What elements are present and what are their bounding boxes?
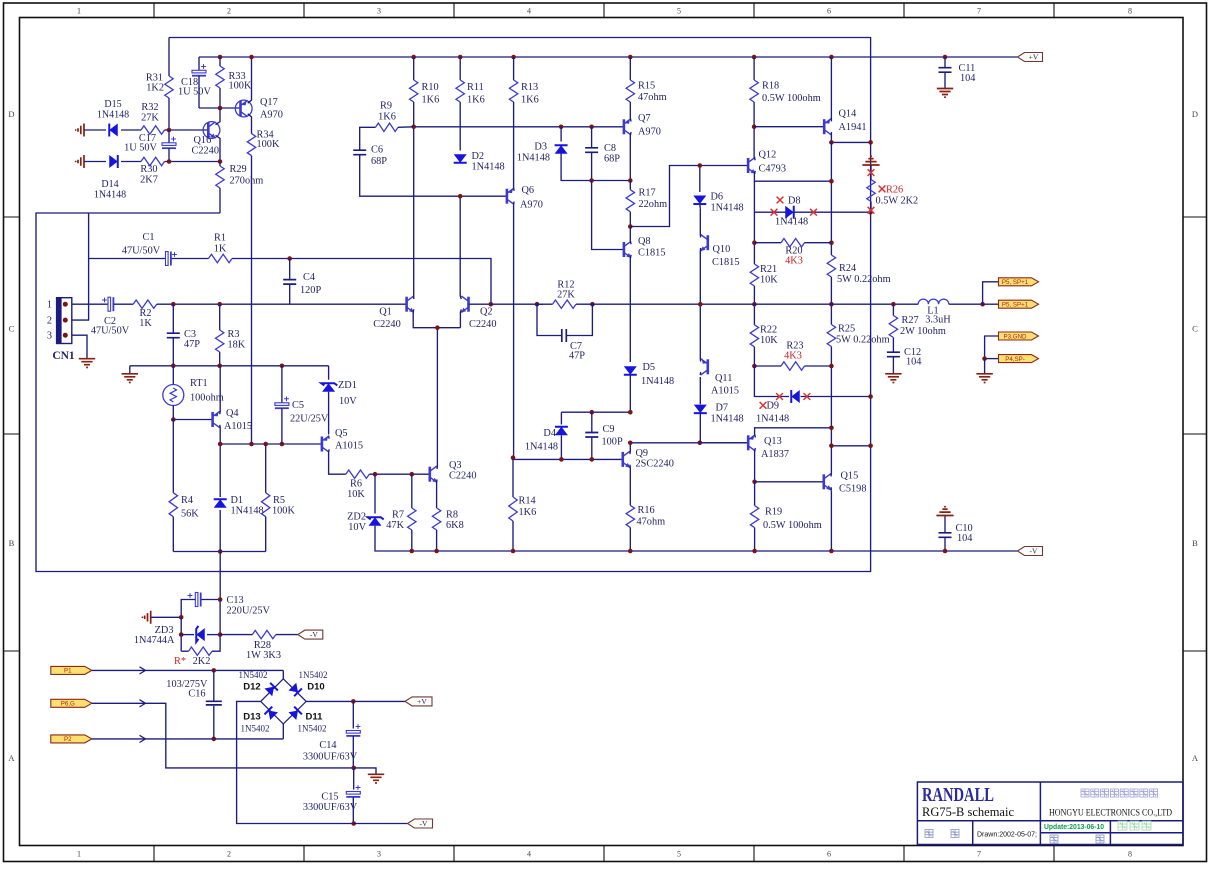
- svg-text:Q17: Q17: [260, 97, 278, 108]
- capacitor C7 47P: [537, 304, 562, 335]
- wire Q14 collector to output loop: [831, 141, 870, 143]
- svg-text:C: C: [9, 324, 15, 334]
- svg-text:D: D: [8, 109, 14, 119]
- transistor Q10 C1815: [700, 235, 708, 252]
- svg-text:22ohm: 22ohm: [639, 199, 668, 210]
- junction C14 top: [351, 699, 356, 704]
- resistor R6 10K: [346, 470, 370, 478]
- svg-text:2K7: 2K7: [140, 175, 158, 186]
- resistor R17 22ohm: [629, 181, 631, 190]
- svg-text:1N4148: 1N4148: [94, 190, 126, 201]
- svg-text:D11: D11: [306, 712, 324, 723]
- svg-text:C6: C6: [371, 145, 383, 156]
- resistor R29 270ohm: [219, 162, 221, 167]
- svg-text:-V: -V: [1030, 547, 1038, 556]
- svg-text:1N4148: 1N4148: [711, 203, 744, 214]
- svg-text:Q16: Q16: [194, 135, 212, 146]
- resistor R25 5W 0.22ohm: [827, 325, 835, 347]
- title block: [917, 782, 1183, 845]
- junction Q13 emitter line: [829, 426, 834, 431]
- title approve cell: [1050, 835, 1058, 843]
- diode D11 1N5402: [288, 707, 301, 720]
- svg-text:RT1: RT1: [190, 378, 208, 389]
- svg-text:3: 3: [47, 331, 52, 342]
- svg-text:R4: R4: [181, 495, 193, 506]
- transistor Q15 C5198: [824, 474, 832, 491]
- resistor R20 4K3: [752, 240, 757, 245]
- svg-text:1K6: 1K6: [422, 95, 440, 106]
- resistor R16 47ohm: [626, 505, 634, 527]
- svg-text:220U/25V: 220U/25V: [227, 606, 271, 617]
- svg-text:ZD1: ZD1: [338, 380, 357, 391]
- capacitor C3 47P: [172, 304, 174, 333]
- resistor R28 1W 3K3: [220, 634, 252, 636]
- svg-text:RG75-B schemaic: RG75-B schemaic: [922, 805, 1014, 819]
- svg-text:R30: R30: [140, 164, 157, 175]
- svg-text:C1: C1: [142, 232, 154, 243]
- svg-text:HONGYU ELECTRONICS CO.,LTD: HONGYU ELECTRONICS CO.,LTD: [1049, 809, 1172, 819]
- wire C1 feedback line: [89, 258, 166, 260]
- svg-text:R17: R17: [639, 188, 656, 199]
- resistor R31: [165, 76, 173, 98]
- svg-text:8: 8: [1128, 7, 1132, 16]
- wire P1 line: [92, 669, 283, 671]
- svg-text:Drawn:2002-05-07;: Drawn:2002-05-07;: [977, 830, 1037, 839]
- junction -V bus: [511, 549, 516, 554]
- wire Q8 base line: [592, 181, 624, 250]
- transistor Q14 A1941: [824, 119, 831, 135]
- svg-text:Q10: Q10: [713, 244, 731, 255]
- diode D7 1N4148: [699, 377, 701, 404]
- svg-text:104: 104: [906, 357, 921, 368]
- ground ZD3 line: [145, 611, 151, 624]
- svg-text:5: 5: [677, 7, 681, 16]
- svg-text:100K: 100K: [272, 506, 295, 517]
- svg-text:D6: D6: [711, 192, 724, 203]
- diode D3 1N4148: [559, 125, 564, 130]
- resistor R19 0.5W 100ohm: [754, 482, 756, 506]
- wire D1 column to C13: [219, 552, 221, 600]
- transistor Q9 2SC2240: [623, 451, 631, 468]
- svg-text:100K: 100K: [229, 81, 252, 92]
- svg-text:C2240: C2240: [449, 471, 476, 482]
- svg-text:56K: 56K: [181, 509, 199, 520]
- wire P6,G line: [92, 703, 354, 768]
- svg-text:120P: 120P: [300, 285, 321, 296]
- svg-text:1: 1: [77, 850, 81, 859]
- capacitor C12 104: [887, 352, 900, 357]
- wire Q15 collector line to loop: [831, 445, 870, 447]
- wire mid to ground: [354, 768, 376, 774]
- svg-text:47U/50V: 47U/50V: [91, 326, 130, 337]
- capacitor C2 47U/50V: [108, 297, 111, 311]
- svg-text:D15: D15: [104, 99, 121, 110]
- junction D3 C8 bottom: [589, 178, 594, 183]
- svg-text:R22: R22: [760, 325, 777, 336]
- junction C4 top: [287, 256, 292, 261]
- flag +V supply: [405, 697, 432, 706]
- svg-text:A1837: A1837: [761, 449, 789, 460]
- svg-text:1W 3K3: 1W 3K3: [246, 650, 281, 661]
- svg-text:3300UF/63V: 3300UF/63V: [303, 752, 358, 763]
- svg-text:0.5W 2K2: 0.5W 2K2: [876, 196, 919, 207]
- ground input line: [129, 366, 131, 374]
- svg-text:Q13: Q13: [764, 436, 782, 447]
- junction +V rail dots: [411, 55, 416, 60]
- svg-text:P5, SP+1: P5, SP+1: [1002, 302, 1029, 309]
- diode D5 1N4148: [624, 366, 637, 375]
- svg-text:A970: A970: [520, 200, 543, 211]
- svg-text:D3: D3: [534, 142, 547, 153]
- transistor Q3 C2240: [430, 466, 438, 483]
- junction -V bus right: [752, 549, 757, 554]
- svg-text:10V: 10V: [348, 522, 366, 533]
- svg-text:R25: R25: [838, 324, 855, 335]
- diode D8 1N4148: [785, 206, 794, 219]
- resistor R* 2K2: [189, 647, 213, 655]
- resistor R3 18K: [219, 304, 221, 330]
- svg-text:R7: R7: [392, 510, 404, 521]
- svg-text:100K: 100K: [257, 139, 280, 150]
- junction R3 top: [217, 302, 222, 307]
- svg-text:3: 3: [377, 7, 381, 16]
- svg-text:10V: 10V: [339, 396, 357, 407]
- svg-text:100P: 100P: [602, 437, 623, 448]
- svg-text:4K3: 4K3: [784, 351, 802, 362]
- resistor R27 2W 10ohm: [892, 304, 894, 315]
- flag P3,GND: [985, 336, 999, 359]
- resistor R26 0.5W 2K2: [870, 165, 872, 180]
- svg-text:R13: R13: [521, 82, 538, 93]
- junction -V bus C10: [943, 549, 948, 554]
- junction C14 C15 mid: [351, 766, 356, 771]
- svg-text:8: 8: [1128, 850, 1132, 859]
- svg-text:68P: 68P: [604, 154, 620, 165]
- svg-text:D5: D5: [643, 362, 656, 373]
- thermistor RT1 100ohm: [172, 366, 174, 385]
- capacitor C17: [168, 130, 170, 143]
- svg-text:1N4148: 1N4148: [525, 442, 558, 453]
- svg-text:1K: 1K: [139, 318, 152, 329]
- wire Q17 base line: [199, 107, 241, 109]
- svg-text:1N4148: 1N4148: [231, 506, 264, 517]
- svg-text:1: 1: [47, 300, 52, 311]
- svg-text:A1015: A1015: [335, 441, 363, 452]
- svg-text:Q15: Q15: [841, 471, 859, 482]
- svg-text:1U 50V: 1U 50V: [124, 143, 157, 154]
- transistor Q11 A1015: [701, 359, 708, 375]
- svg-text:P4,SP-: P4,SP-: [1005, 356, 1025, 363]
- resistor R32: [141, 126, 165, 134]
- svg-text:1N4148: 1N4148: [517, 153, 550, 164]
- svg-text:Q11: Q11: [715, 373, 732, 384]
- svg-text:-V: -V: [310, 630, 318, 639]
- svg-text:D10: D10: [307, 682, 324, 693]
- svg-text:D7: D7: [716, 403, 729, 414]
- junction Q2 base: [489, 302, 494, 307]
- flag P5,SP+1 upper: [999, 278, 1039, 286]
- svg-text:P2: P2: [64, 736, 72, 743]
- junction Q6 base: [458, 194, 463, 199]
- svg-text:27K: 27K: [557, 290, 575, 301]
- diode D10 1N5402: [288, 683, 301, 696]
- svg-text:5: 5: [677, 850, 681, 859]
- transistor Q16 C2240: [169, 129, 208, 131]
- svg-text:6K8: 6K8: [446, 520, 464, 531]
- svg-text:47ohm: 47ohm: [637, 517, 666, 528]
- resistor R9 1K6: [360, 127, 376, 150]
- svg-text:C4793: C4793: [759, 164, 786, 175]
- capacitor C10 104: [944, 516, 946, 533]
- diode D15 1N4148: [78, 124, 84, 137]
- svg-text:10K: 10K: [760, 335, 778, 346]
- wire P2 line: [92, 738, 283, 740]
- svg-text:1U 50V: 1U 50V: [178, 87, 211, 98]
- resistor R21 10K: [750, 264, 758, 286]
- svg-text:1N5402: 1N5402: [239, 670, 268, 680]
- svg-text:0.5W 100ohm: 0.5W 100ohm: [763, 520, 822, 531]
- svg-text:-V: -V: [420, 819, 428, 828]
- transistor Q12 C4793: [748, 157, 756, 174]
- capacitor C5 22U/25V: [281, 366, 283, 403]
- diode D2 1N4148: [454, 154, 467, 163]
- svg-text:+V: +V: [417, 697, 427, 706]
- svg-text:D13: D13: [243, 712, 260, 723]
- title chinese company: [1081, 789, 1158, 797]
- zener ZD3 1N4744A: [180, 617, 182, 651]
- flag P1: [51, 666, 92, 674]
- wire D9 line: [754, 366, 789, 397]
- svg-text:1: 1: [77, 7, 81, 16]
- resistor R15 47ohm: [629, 57, 631, 80]
- diode D14 1N4148: [78, 155, 84, 168]
- capacitor C6 68P: [353, 150, 366, 155]
- junction R22 bottom: [752, 364, 757, 369]
- svg-text:D1: D1: [231, 495, 244, 506]
- junction ZD3 left: [179, 615, 184, 620]
- svg-text:3: 3: [377, 850, 381, 859]
- svg-text:P6,G: P6,G: [61, 701, 75, 708]
- wire Q9 base line: [513, 458, 623, 460]
- inductor L1 3.3uH: [918, 299, 949, 304]
- svg-text:C5: C5: [292, 400, 304, 411]
- wire Q15 base line: [755, 481, 824, 483]
- ground supply mid: [368, 774, 384, 783]
- resistor R14 1K6: [512, 459, 514, 497]
- svg-text:D: D: [1192, 109, 1198, 119]
- svg-text:+V: +V: [1029, 53, 1039, 62]
- svg-text:2: 2: [47, 316, 52, 327]
- svg-text:C8: C8: [604, 143, 616, 154]
- resistor R24 5W 0.22ohm: [827, 255, 835, 277]
- wire CN1 pin3 ground: [72, 335, 87, 358]
- svg-text:47U/50V: 47U/50V: [122, 246, 161, 257]
- capacitor C11 104: [944, 57, 946, 68]
- svg-text:R19: R19: [765, 507, 782, 518]
- capacitor C14 3300UF/63V: [352, 701, 354, 728]
- svg-text:2: 2: [227, 7, 231, 16]
- wire Q5 base line y444: [220, 443, 322, 445]
- wire x831 vertical: [830, 142, 832, 255]
- svg-text:47P: 47P: [184, 339, 200, 350]
- svg-text:C9: C9: [603, 424, 615, 435]
- wire main output loop box: [36, 38, 871, 572]
- resistor R1 1K: [209, 254, 233, 262]
- svg-text:D4: D4: [543, 428, 556, 439]
- diode D1 1N4148: [219, 444, 221, 497]
- svg-text:1K2: 1K2: [146, 83, 164, 94]
- flag P6,G: [51, 699, 92, 707]
- diode D12 1N5402: [264, 683, 277, 696]
- junction Q4 base: [171, 417, 176, 422]
- svg-text:P5, SP+1: P5, SP+1: [1002, 279, 1029, 286]
- svg-text:1K6: 1K6: [467, 95, 485, 106]
- svg-text:P1: P1: [64, 668, 72, 675]
- svg-text:A1941: A1941: [839, 122, 867, 133]
- svg-text:D8: D8: [788, 196, 801, 207]
- wire +V rail: [199, 56, 1018, 58]
- capacitor C13 220U/25V: [201, 599, 220, 601]
- svg-text:Q9: Q9: [636, 448, 649, 459]
- svg-text:R10: R10: [422, 82, 439, 93]
- svg-text:1N4148: 1N4148: [775, 217, 808, 228]
- svg-text:ZD2: ZD2: [347, 512, 366, 523]
- svg-text:R26: R26: [886, 185, 903, 196]
- resistor R23 4K3: [781, 362, 805, 370]
- title date cell: [925, 830, 933, 838]
- x marks D9: [776, 393, 783, 400]
- svg-text:2SC2240: 2SC2240: [636, 459, 674, 470]
- diode D13 1N5402: [264, 707, 277, 720]
- svg-text:6: 6: [827, 7, 831, 16]
- svg-text:4: 4: [527, 850, 531, 859]
- bridge rectifier diamond: [282, 670, 284, 678]
- wire CN1 pin1 to C2: [72, 303, 108, 305]
- svg-text:1N5402: 1N5402: [298, 724, 327, 734]
- junction Q1 Q2 emitters: [435, 325, 440, 330]
- capacitor C1 47U/50V: [166, 252, 169, 266]
- svg-text:C2240: C2240: [469, 319, 496, 330]
- zener ZD1 10V: [328, 366, 330, 380]
- resistor R33: [218, 55, 223, 60]
- resistor R11 1K6: [459, 57, 461, 80]
- svg-text:R14: R14: [519, 496, 536, 507]
- svg-text:C4: C4: [303, 272, 315, 283]
- svg-text:1N4148: 1N4148: [97, 110, 129, 121]
- svg-text:3.3uH: 3.3uH: [925, 315, 951, 326]
- junction C16 top: [212, 668, 217, 673]
- svg-text:104: 104: [960, 73, 975, 84]
- svg-text:R9: R9: [380, 101, 392, 112]
- svg-text:R11: R11: [467, 82, 484, 93]
- svg-text:R29: R29: [230, 164, 247, 175]
- wire R17 to Q12 base: [630, 166, 748, 227]
- svg-text:47K: 47K: [386, 520, 404, 531]
- flag +V top: [1018, 53, 1043, 62]
- title approved name: [1118, 821, 1151, 830]
- svg-text:1K: 1K: [214, 244, 227, 255]
- resistor R12 27K: [535, 302, 540, 307]
- svg-text:6: 6: [827, 850, 831, 859]
- svg-text:C1815: C1815: [638, 248, 665, 259]
- svg-text:68P: 68P: [371, 156, 387, 167]
- svg-text:18K: 18K: [228, 340, 246, 351]
- wire main rail mid: [491, 303, 543, 305]
- svg-text:R*: R*: [174, 656, 186, 667]
- svg-text:22U/25V: 22U/25V: [290, 414, 329, 425]
- wire -V supply: [354, 823, 408, 825]
- junction Q12 base line: [698, 163, 703, 168]
- svg-text:1N4148: 1N4148: [472, 162, 505, 173]
- wire CN1 pin2 up: [72, 213, 89, 320]
- transistor Q5 A1015: [322, 436, 329, 452]
- wire R4 D1 R5 bus: [173, 551, 265, 553]
- flag -V R28: [298, 630, 323, 639]
- svg-text:2W 10ohm: 2W 10ohm: [900, 326, 946, 337]
- capacitor C18: [198, 57, 200, 70]
- svg-text:D9: D9: [767, 401, 780, 412]
- resistor R8 6K8: [432, 508, 440, 530]
- capacitor C16 103/275V: [213, 670, 215, 701]
- svg-text:A1015: A1015: [224, 421, 252, 432]
- svg-text:R1: R1: [214, 233, 226, 244]
- ground R26 top: [862, 156, 879, 165]
- svg-text:0.5W 100ohm: 0.5W 100ohm: [762, 93, 821, 104]
- svg-text:C: C: [1192, 324, 1198, 334]
- svg-text:D14: D14: [101, 179, 118, 190]
- resistor R2 1K: [133, 300, 157, 308]
- svg-text:CN1: CN1: [52, 350, 75, 362]
- svg-text:1N5402: 1N5402: [299, 670, 328, 680]
- svg-text:1N4148: 1N4148: [641, 376, 674, 387]
- svg-text:270ohm: 270ohm: [230, 176, 264, 187]
- junction R17 bottom: [628, 224, 633, 229]
- resistor R34: [247, 134, 255, 156]
- svg-text:C15: C15: [321, 792, 338, 803]
- svg-text:C1815: C1815: [712, 257, 739, 268]
- svg-text:C13: C13: [227, 595, 244, 606]
- svg-text:C14: C14: [319, 740, 336, 751]
- svg-text:7: 7: [977, 850, 981, 859]
- svg-text:104: 104: [957, 533, 972, 544]
- svg-text:1N5402: 1N5402: [241, 724, 270, 734]
- svg-text:R5: R5: [273, 495, 285, 506]
- svg-text:B: B: [1192, 538, 1198, 548]
- resistor R13 1K6: [513, 57, 515, 80]
- connector CN1: [57, 298, 72, 344]
- svg-text:A970: A970: [260, 110, 283, 121]
- svg-text:10K: 10K: [760, 275, 778, 286]
- svg-text:Q8: Q8: [638, 236, 651, 247]
- svg-text:1K6: 1K6: [519, 507, 537, 518]
- wire y127 rail to Q7 base: [414, 126, 624, 128]
- transistor Q1 C2240: [407, 296, 415, 313]
- junction R7 top: [410, 472, 415, 477]
- resistor R22 10K: [753, 304, 755, 325]
- ground CN1: [79, 359, 95, 368]
- ground C11: [937, 89, 953, 98]
- svg-text:B: B: [9, 538, 15, 548]
- svg-text:4K3: 4K3: [785, 256, 803, 267]
- x marks D8: [771, 209, 778, 216]
- svg-text:5W 0.22ohm: 5W 0.22ohm: [836, 335, 890, 346]
- svg-text:P3,GND: P3,GND: [1003, 333, 1027, 340]
- transistor Q8 C1815: [624, 241, 632, 258]
- flag P2: [51, 735, 92, 743]
- wire ground line y366: [130, 365, 329, 367]
- capacitor C9 100P: [591, 412, 593, 432]
- svg-text:C2240: C2240: [373, 319, 400, 330]
